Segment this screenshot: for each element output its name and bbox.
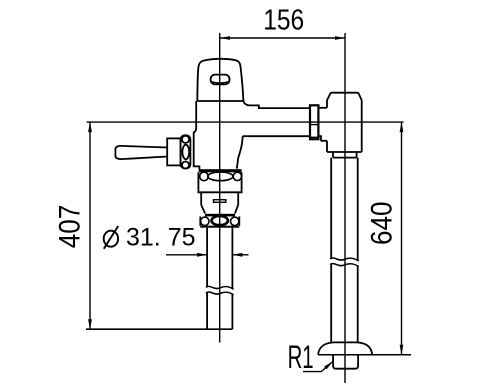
right pipe edges lower [330, 265, 332, 343]
lever nut [181, 135, 191, 168]
cap flange line [197, 100, 243, 102]
svg-text:156: 156 [263, 5, 304, 37]
cap button [211, 75, 230, 85]
spud heavy band bottom [200, 226, 239, 228]
dome base line + 640 extension [318, 354, 411, 356]
arrow 407 down [88, 319, 92, 329]
base nut [333, 355, 358, 369]
spud mid section [200, 192, 202, 205]
spud heavy band mid [205, 214, 235, 217]
elbow cap [327, 93, 362, 101]
valve body left edge [194, 101, 200, 169]
arrow 640 up [400, 122, 404, 132]
arm bottom [243, 135, 310, 137]
arm coupling nut [310, 105, 318, 139]
arm top right of nut [318, 107, 327, 109]
lever grip [115, 146, 167, 159]
spud nut1 bumps [200, 172, 209, 181]
svg-text:407: 407 [53, 205, 86, 249]
extension line bottom of 407 / pipe bottom [86, 328, 232, 330]
base dome flange [318, 342, 372, 354]
right pipe edges upper [330, 158, 332, 259]
left pipe break waves [206, 286, 234, 289]
spud nut1 body [198, 172, 241, 192]
svg-text:31. 75: 31. 75 [126, 224, 196, 252]
spud nut2 [199, 216, 201, 225]
left pipe edges lower [206, 293, 208, 329]
arm bottom right of nut, step into elbow [318, 136, 327, 141]
leader phi left [166, 254, 207, 256]
right pipe break waves [330, 258, 359, 261]
dim line 407 [89, 122, 91, 329]
centerline right pipe vertical [344, 33, 346, 383]
spud taper [201, 205, 205, 214]
spud slot [214, 200, 226, 203]
svg-text:R1: R1 [288, 339, 314, 375]
leader R1 [303, 361, 333, 371]
dim line 640 [401, 122, 403, 355]
valve body right shoulder and arm top [243, 99, 310, 108]
svg-text:640: 640 [366, 202, 399, 246]
lever socket [167, 138, 180, 165]
leader phi right [232, 254, 248, 256]
elbow collar [333, 152, 357, 158]
arrow 407 up [88, 122, 92, 132]
elbow left edge upper [326, 100, 328, 108]
elbow left edge lower [326, 141, 328, 152]
arrow 156 left [220, 36, 230, 40]
spud heavy band top [199, 169, 242, 172]
arrow 640 down [400, 345, 404, 355]
arrow 156 right [335, 36, 345, 40]
centerline valve vertical [219, 33, 221, 343]
left pipe edges upper [206, 228, 208, 288]
dim line 156 [220, 37, 345, 39]
valve cap (bonnet) [197, 59, 243, 101]
elbow right edge [361, 100, 363, 152]
valve body right taper [237, 136, 243, 168]
phi symbol [104, 226, 118, 249]
centerline horizontal main [87, 121, 404, 123]
elbow bottom [327, 151, 362, 153]
